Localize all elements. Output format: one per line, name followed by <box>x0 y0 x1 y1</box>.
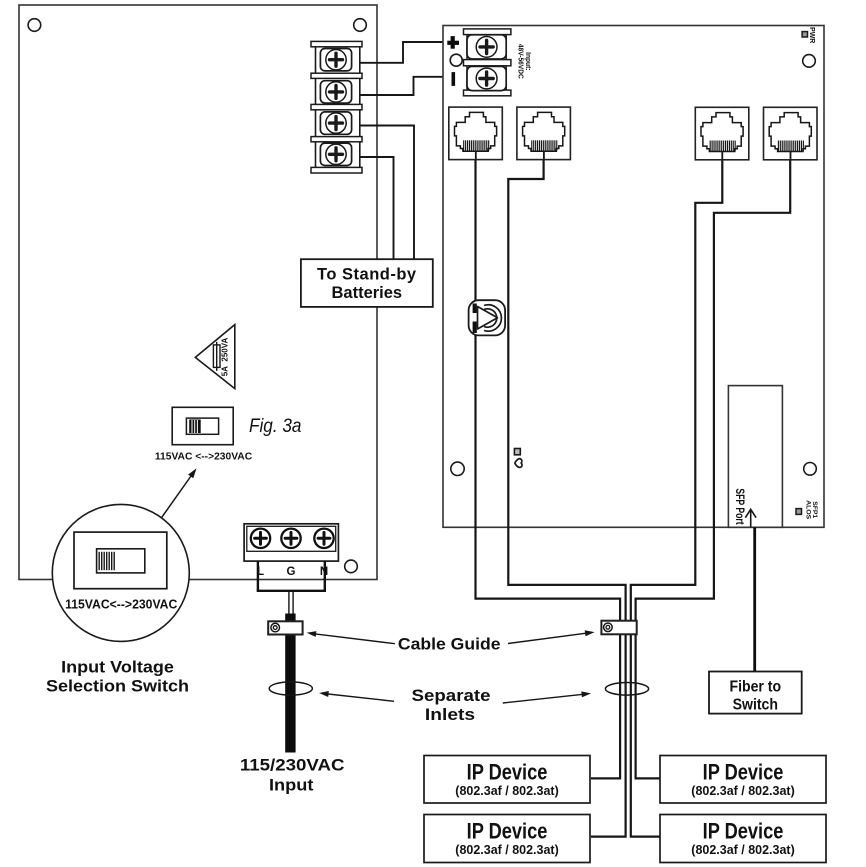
svg-text:Selection Switch: Selection Switch <box>46 676 189 695</box>
svg-text:IP Device: IP Device <box>467 761 548 785</box>
svg-text:Batteries: Batteries <box>331 284 402 302</box>
svg-text:Fiber to: Fiber to <box>729 679 781 696</box>
svg-text:(802.3af / 802.3at): (802.3af / 802.3at) <box>691 842 794 857</box>
svg-text:Inlets: Inlets <box>425 705 475 724</box>
svg-text:IP Device: IP Device <box>703 820 784 844</box>
svg-text:Input Voltage: Input Voltage <box>61 657 174 676</box>
svg-text:PWR: PWR <box>808 27 815 43</box>
svg-text:(802.3af / 802.3at): (802.3af / 802.3at) <box>455 842 558 857</box>
svg-text:IP Device: IP Device <box>703 761 784 785</box>
svg-text:(802.3af / 802.3at): (802.3af / 802.3at) <box>691 783 794 798</box>
svg-text:To Stand-by: To Stand-by <box>317 266 417 284</box>
svg-text:(802.3af / 802.3at): (802.3af / 802.3at) <box>455 783 558 798</box>
svg-text:Cable Guide: Cable Guide <box>398 634 501 654</box>
svg-text:Fig. 3a: Fig. 3a <box>249 414 301 436</box>
svg-text:115VAC<-->230VAC: 115VAC<-->230VAC <box>65 597 177 611</box>
svg-text:SFP1ALOS: SFP1ALOS <box>804 500 817 519</box>
svg-text:115/230VAC: 115/230VAC <box>240 755 345 774</box>
svg-text:115VAC <-->230VAC: 115VAC <-->230VAC <box>155 452 252 463</box>
svg-text:Switch: Switch <box>733 697 778 714</box>
svg-text:Separate: Separate <box>412 686 491 705</box>
svg-text:Input: Input <box>269 775 314 794</box>
svg-text:SFP Port: SFP Port <box>732 488 746 525</box>
svg-text:N: N <box>320 566 328 578</box>
svg-text:G: G <box>287 566 296 578</box>
svg-text:L: L <box>257 566 264 578</box>
svg-text:IP Device: IP Device <box>467 820 548 844</box>
svg-text:5A 250VA: 5A 250VA <box>221 338 230 377</box>
